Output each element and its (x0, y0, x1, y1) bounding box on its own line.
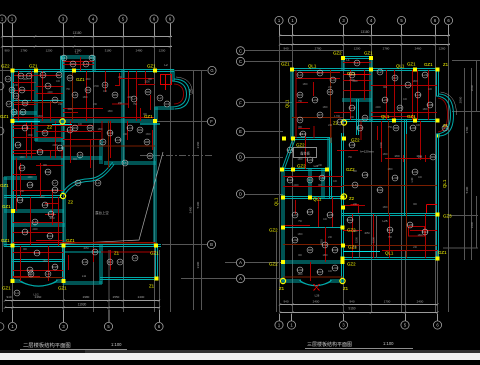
svg-text:L6: L6 (84, 62, 88, 66)
svg-text:G: G (210, 68, 213, 73)
beams right plan vertical (313, 82, 315, 96)
axis bubble 1 (8, 322, 16, 330)
left plan dim extension verticals (193, 70, 195, 310)
svg-text:L33: L33 (297, 268, 302, 272)
svg-text:GZ2: GZ2 (297, 164, 306, 169)
wall y252 segment (64, 251, 101, 253)
svg-text:2550: 2550 (113, 295, 120, 299)
svg-text:GZ1: GZ1 (2, 204, 11, 209)
column bay bottom (435, 133, 439, 137)
axis bubble 1 (8, 15, 16, 23)
svg-text:940: 940 (6, 295, 11, 299)
svg-text:2400: 2400 (352, 81, 358, 83)
wall interior x36 low (35, 120, 37, 141)
svg-text:L31: L31 (412, 170, 417, 174)
svg-text:2460: 2460 (415, 46, 422, 50)
axis bubble 3 (59, 15, 67, 23)
svg-text:GZ1: GZ1 (29, 64, 38, 69)
bright cyan lintel segments left (52, 124, 72, 126)
svg-text:L16: L16 (57, 146, 62, 150)
axis bubble D (236, 153, 244, 161)
svg-text:L30: L30 (349, 143, 354, 147)
columns bottom y258 (340, 256, 344, 260)
svg-text:D5: D5 (350, 73, 354, 77)
axis bubble 4 (367, 16, 375, 24)
svg-text:D3: D3 (298, 93, 302, 97)
svg-text:1800: 1800 (302, 84, 308, 86)
svg-text:QL1: QL1 (274, 197, 279, 206)
svg-text:D14: D14 (47, 234, 53, 238)
terrace edge diagonal (60, 152, 163, 244)
svg-text:1700: 1700 (384, 300, 391, 304)
svg-text:D2: D2 (68, 76, 72, 80)
wall right x155 lower (154, 120, 156, 247)
svg-text:3180: 3180 (105, 49, 112, 53)
svg-text:A: A (239, 260, 242, 265)
axis bubble C (236, 57, 244, 65)
svg-text:L29: L29 (407, 223, 412, 227)
svg-text:GZ2: GZ2 (347, 262, 356, 267)
svg-text:L23: L23 (349, 106, 354, 110)
svg-text:Z2: Z2 (47, 125, 53, 130)
svg-text:L4: L4 (15, 291, 19, 295)
svg-text:GZ1: GZ1 (58, 286, 67, 291)
column GZ1 bottom left (10, 279, 14, 283)
svg-text:1800: 1800 (107, 111, 113, 113)
beams right plan horizontal (300, 72, 340, 74)
svg-text:D4: D4 (86, 88, 90, 92)
svg-text:D: D (239, 155, 242, 160)
svg-text:1800: 1800 (37, 116, 43, 118)
wall lower-mid rooms (100, 245, 102, 285)
svg-text:L5: L5 (10, 88, 14, 92)
svg-text:L25: L25 (382, 219, 387, 223)
svg-text:D4: D4 (308, 178, 312, 182)
svg-text:L28: L28 (362, 173, 367, 177)
svg-text:L27: L27 (292, 213, 297, 217)
svg-text:L34: L34 (332, 266, 337, 270)
svg-text:1800: 1800 (412, 81, 418, 83)
svg-text:940: 940 (283, 46, 288, 50)
wall interior y158 (12, 157, 103, 159)
svg-text:1:100: 1:100 (383, 341, 394, 346)
axis bubble B (207, 240, 215, 248)
svg-text:D5: D5 (398, 106, 402, 110)
red slash bay (314, 284, 320, 291)
wall right bay arc (175, 79, 190, 109)
left plan top dimension lines (2, 36, 172, 38)
svg-text:D12: D12 (52, 188, 58, 192)
wall y225 (12, 224, 66, 226)
svg-text:C3: C3 (165, 102, 169, 106)
svg-text:二层楼板结构平面图: 二层楼板结构平面图 (23, 341, 71, 349)
left edge half bubbles (0, 82, 4, 90)
column GZ1 x36/G (34, 68, 38, 72)
right plan bottom dim lines (280, 304, 438, 306)
svg-text:2460: 2460 (35, 295, 42, 299)
svg-text:GZ1: GZ1 (66, 238, 75, 243)
bright cyan lintels right (343, 251, 380, 253)
wall interior x36 (35, 70, 37, 123)
wall interior y101 (12, 101, 65, 103)
svg-text:L6: L6 (123, 161, 127, 165)
svg-text:L28: L28 (327, 213, 332, 217)
svg-text:D8: D8 (308, 248, 312, 252)
ring Z2 x62/F (60, 119, 65, 124)
svg-text:Z1: Z1 (279, 286, 285, 291)
svg-text:1800: 1800 (417, 235, 423, 237)
svg-text:D1: D1 (318, 71, 322, 75)
svg-text:GZ1: GZ1 (2, 286, 11, 291)
svg-text:13180: 13180 (73, 31, 82, 35)
svg-text:2400: 2400 (293, 185, 299, 187)
svg-text:2060: 2060 (470, 84, 474, 91)
wall right upper x173 (172, 70, 174, 82)
red dim beam y158 (385, 158, 430, 160)
svg-text:L21: L21 (422, 73, 427, 77)
svg-text:1800: 1800 (42, 261, 48, 263)
svg-text:QL1: QL1 (285, 99, 290, 108)
svg-text:GZ1: GZ1 (407, 114, 416, 119)
svg-text:1800: 1800 (322, 255, 328, 257)
svg-text:D6: D6 (53, 98, 57, 102)
svg-text:2780: 2780 (383, 46, 390, 50)
svg-text:D2: D2 (148, 154, 152, 158)
svg-text:A: A (239, 276, 242, 281)
column GZ1 bump right (369, 56, 373, 60)
ring Z2 right plan (341, 194, 346, 199)
svg-text:940: 940 (283, 300, 288, 304)
axis bubble 6 (155, 322, 163, 330)
red box room D (409, 227, 425, 237)
wall interior y140 (35, 139, 64, 141)
right plan notes (294, 148, 317, 158)
svg-text:QL1: QL1 (381, 114, 390, 119)
right plan right edge dim lines (452, 60, 480, 62)
right plan grid horizontals (245, 50, 343, 52)
column GZ3 x437 y214 (435, 212, 439, 216)
red hook x119 (115, 73, 120, 86)
column GZ2 axis1/G (10, 68, 14, 72)
axis bubble A (236, 275, 244, 283)
svg-text:L9: L9 (96, 181, 100, 185)
svg-text:L30: L30 (410, 177, 414, 182)
wall y214 D axis (342, 214, 439, 216)
svg-text:L7: L7 (53, 181, 57, 185)
terrace bottom wall (282, 169, 330, 171)
svg-text:D8: D8 (394, 126, 398, 130)
axis bubble 5 (397, 16, 405, 24)
svg-text:D9: D9 (431, 155, 435, 159)
wall left main x12 (12, 70, 14, 247)
svg-text:露台板: 露台板 (300, 151, 310, 156)
svg-text:2480: 2480 (136, 49, 143, 53)
svg-text:L22: L22 (312, 98, 317, 102)
svg-text:GZ2: GZ2 (296, 143, 305, 148)
svg-text:4000: 4000 (67, 109, 73, 111)
axis bubble 1 (275, 16, 283, 24)
right plan dim extension verticals (464, 68, 466, 260)
wall bay return (155, 107, 174, 109)
wall interior y178 (4, 177, 37, 179)
svg-text:L7: L7 (132, 97, 136, 101)
wall right x437 lower (437, 134, 439, 260)
svg-text:1.700: 1.700 (334, 115, 341, 118)
svg-text:QL1: QL1 (396, 64, 405, 69)
svg-text:D15: D15 (307, 210, 313, 214)
right plan grid verticals (279, 25, 281, 312)
svg-text:L30: L30 (392, 176, 397, 180)
svg-text:L20: L20 (42, 203, 47, 207)
svg-text:L9: L9 (78, 153, 82, 157)
lower-left bay arc (19, 280, 58, 286)
svg-text:GZ1: GZ1 (407, 62, 416, 67)
svg-text:L31: L31 (322, 243, 327, 247)
wall right bay arc (439, 94, 454, 136)
svg-text:GZ1: GZ1 (424, 62, 433, 67)
columns terrace bottom row (280, 167, 284, 171)
svg-text:QL1: QL1 (313, 197, 322, 202)
columns x343 intermediate (341, 205, 345, 209)
svg-text:1800: 1800 (82, 97, 88, 99)
svg-text:1260: 1260 (439, 46, 446, 50)
axis bubble 6 (150, 15, 158, 23)
svg-text:L14: L14 (127, 126, 132, 130)
wall stair x357 (357, 99, 359, 135)
svg-text:L1: L1 (355, 61, 359, 65)
svg-text:L18: L18 (27, 183, 32, 187)
svg-text:1500: 1500 (145, 134, 151, 136)
svg-text:D: D (239, 192, 242, 197)
svg-text:L2: L2 (164, 63, 168, 67)
svg-text:L32: L32 (292, 238, 297, 242)
svg-text:7180: 7180 (189, 88, 193, 95)
svg-text:GZ1: GZ1 (150, 251, 159, 256)
svg-text:1700: 1700 (465, 126, 469, 133)
wall right bump (342, 57, 344, 71)
svg-text:D7: D7 (43, 131, 47, 135)
svg-text:L8: L8 (73, 93, 77, 97)
svg-text:1800: 1800 (297, 274, 303, 276)
svg-text:D4: D4 (21, 110, 25, 114)
wall stair curve (62, 163, 113, 195)
axis bubble 6 (166, 15, 174, 23)
wall x371 upper (370, 69, 372, 122)
column GZ1 x155/G (153, 68, 157, 72)
svg-text:Z1: Z1 (443, 62, 449, 67)
columns terrace top row (282, 136, 286, 140)
svg-text:11930: 11930 (78, 303, 87, 307)
wall interior x63 upper (62, 56, 64, 122)
axis bubble 6 (431, 16, 439, 24)
wall x323 interior (322, 169, 324, 199)
svg-text:GZ2: GZ2 (269, 262, 278, 267)
column GZ1 B left (10, 243, 14, 247)
beam red accents left (161, 74, 172, 90)
wall x405 interior (405, 120, 407, 216)
svg-text:3300: 3300 (196, 261, 200, 268)
svg-text:GZ1: GZ1 (438, 250, 447, 255)
svg-text:L10: L10 (34, 251, 39, 255)
svg-text:L9: L9 (118, 260, 122, 264)
wall mid right y120 (342, 120, 439, 122)
axis bubble 1 (275, 321, 283, 329)
svg-text:L13: L13 (107, 131, 112, 135)
svg-text:L9: L9 (101, 140, 105, 144)
left bottom half bubble (0, 323, 4, 331)
svg-text:D15: D15 (52, 265, 58, 269)
svg-text:1800: 1800 (387, 169, 393, 171)
axis bubble G (208, 66, 216, 74)
column x371 top (369, 67, 373, 71)
wall interior x101 (100, 139, 102, 164)
svg-text:D1: D1 (19, 74, 23, 78)
svg-text:L6: L6 (353, 183, 357, 187)
status bar dark strip (0, 350, 480, 353)
svg-text:L38: L38 (427, 103, 432, 107)
columns y197 row (281, 195, 285, 199)
svg-text:1500: 1500 (355, 237, 359, 243)
svg-text:D14: D14 (422, 230, 428, 234)
svg-text:L7: L7 (7, 102, 11, 106)
wall bottom y258 (342, 258, 439, 260)
svg-text:1800: 1800 (322, 107, 328, 109)
axis bubble 6 (444, 16, 452, 24)
svg-text:D13: D13 (387, 228, 393, 232)
svg-text:GZ1: GZ1 (0, 183, 9, 188)
svg-text:D17: D17 (317, 270, 323, 274)
axis bubble 6 (433, 321, 441, 329)
svg-text:GZ2: GZ2 (1, 64, 10, 69)
columns Z1 bottom-left (280, 278, 285, 283)
svg-text:2400: 2400 (127, 97, 133, 99)
svg-text:D12: D12 (347, 218, 353, 222)
svg-text:L9: L9 (33, 220, 37, 224)
axis bubble 3 (339, 16, 347, 24)
svg-text:1800: 1800 (297, 234, 303, 236)
axis bubble D (236, 190, 244, 198)
svg-text:L3: L3 (406, 83, 410, 87)
svg-text:L16: L16 (115, 138, 120, 142)
axis bubble 5 (401, 321, 409, 329)
beams left plan vertical (18, 71, 20, 121)
column GZ1 B x156 (154, 243, 158, 247)
svg-text:1800: 1800 (297, 159, 303, 161)
svg-text:2400: 2400 (313, 300, 320, 304)
axis bubble 1 (288, 16, 296, 24)
svg-text:D11: D11 (377, 188, 383, 192)
svg-text:GZ3: GZ3 (443, 214, 452, 219)
svg-text:1:100: 1:100 (111, 342, 122, 347)
svg-text:980: 980 (4, 49, 9, 53)
right plan top dimension lines (280, 35, 450, 37)
wall left x292 (291, 69, 293, 140)
column GZ1 B x63 (61, 243, 65, 247)
column GZ1 bump (72, 68, 76, 72)
svg-text:GZ2: GZ2 (351, 138, 360, 143)
svg-text:D11: D11 (45, 170, 51, 174)
svg-text:2400: 2400 (417, 300, 424, 304)
svg-text:2980: 2980 (83, 295, 90, 299)
svg-text:E: E (239, 129, 242, 134)
wall x330 corridor (330, 138, 332, 199)
column GZ1 bottom x63 (61, 279, 65, 283)
red box x428 (427, 205, 438, 214)
svg-text:L5: L5 (12, 110, 16, 114)
svg-text:D8: D8 (88, 126, 92, 130)
svg-text:940: 940 (349, 300, 354, 304)
svg-text:D2: D2 (393, 76, 397, 80)
column Z1 y278 (154, 276, 158, 280)
svg-text:D2: D2 (93, 250, 97, 254)
svg-text:Z1: Z1 (114, 251, 120, 256)
svg-text:D3: D3 (20, 88, 24, 92)
svg-text:L6: L6 (320, 176, 324, 180)
svg-text:F: F (210, 119, 213, 124)
columns y134 row (342, 136, 346, 140)
svg-text:1800: 1800 (19, 157, 25, 159)
dark red service lines (388, 121, 390, 215)
svg-text:1800: 1800 (382, 154, 388, 156)
svg-text:2400: 2400 (138, 295, 145, 299)
svg-text:2400: 2400 (375, 107, 381, 109)
svg-text:2780: 2780 (21, 49, 28, 53)
svg-text:1200: 1200 (159, 49, 166, 53)
svg-text:2160: 2160 (196, 141, 200, 148)
svg-text:Z1: Z1 (343, 286, 349, 291)
svg-text:4050: 4050 (83, 247, 89, 250)
wall interior x63 mid (62, 120, 64, 194)
right plan left axis stubs (181, 278, 236, 280)
terrace diagonal wall (282, 139, 295, 171)
svg-text:2400: 2400 (470, 221, 474, 228)
wall x123 lower (122, 120, 124, 164)
column GZ1 x292 top (290, 67, 294, 71)
svg-text:1800: 1800 (422, 109, 428, 111)
axis bubble 4 (89, 15, 97, 23)
svg-text:L20: L20 (382, 98, 387, 102)
svg-text:1800: 1800 (22, 79, 28, 81)
terrace right wall (328, 138, 330, 171)
walls lower-left block (12, 245, 14, 283)
svg-text:1800: 1800 (39, 197, 45, 199)
svg-text:L26: L26 (315, 294, 320, 298)
wall y227 single (283, 227, 343, 229)
svg-text:9160: 9160 (348, 307, 355, 311)
svg-text:L9: L9 (46, 272, 50, 276)
svg-text:L1: L1 (75, 51, 79, 55)
red box bedroom (51, 151, 63, 159)
svg-text:L11: L11 (82, 274, 87, 278)
wall x64 below ring (63, 198, 65, 247)
svg-text:D6: D6 (363, 116, 367, 120)
svg-text:L5: L5 (298, 118, 302, 122)
svg-text:QL1: QL1 (308, 64, 317, 69)
svg-text:5100: 5100 (465, 186, 469, 193)
svg-text:QL1: QL1 (442, 179, 447, 188)
left plan bottom bubbles (12, 310, 14, 322)
svg-text:GZ1: GZ1 (147, 64, 156, 69)
taskbar light strip (0, 353, 480, 360)
svg-text:L15: L15 (15, 143, 20, 147)
svg-text:450: 450 (118, 102, 123, 105)
svg-text:2780: 2780 (315, 46, 322, 50)
svg-text:D2: D2 (57, 73, 61, 77)
axis bubble 3 (339, 321, 347, 329)
svg-text:L19: L19 (17, 198, 22, 202)
svg-text:三层楼板结构平面图: 三层楼板结构平面图 (307, 341, 352, 348)
svg-text:2400: 2400 (32, 229, 38, 231)
